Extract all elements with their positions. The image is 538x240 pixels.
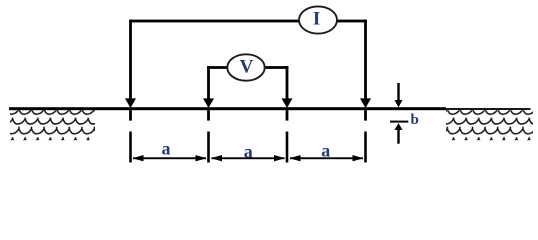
svg-text:I: I [313,9,320,30]
label a1 [162,138,171,158]
wire: current loop top left [129,20,300,23]
voltmeter V [227,54,264,80]
svg-text:a: a [162,138,171,158]
label b [411,112,419,128]
svg-text:a: a [321,141,330,161]
label a3 [321,141,330,161]
dimension a (C1-P1) [133,155,207,161]
wire: voltage loop top right [264,66,288,69]
svg-text:a: a [244,141,253,161]
ground surface line right (thin) [446,108,531,110]
extension line at C2 [364,132,367,163]
earth hatch left [10,110,95,140]
electrode P1 (second) [203,66,214,121]
extension line at P2 [286,132,289,163]
wire: current loop top right [337,20,368,23]
electrode C1 (leftmost) [125,20,136,121]
svg-text:b: b [411,112,419,128]
dimension a (P1-P2) [211,155,285,161]
extension line at P1 [207,132,210,163]
ammeter I [299,6,337,33]
dimension b (electrode depth) [390,83,408,144]
electrode P2 (third) [282,66,293,121]
svg-text:V: V [240,56,254,77]
ground surface line (thick) [9,107,446,110]
extension line at C1 [129,132,132,163]
label a2 [244,141,253,161]
dimension a (P2-C2) [290,155,364,161]
electrode C2 (rightmost) [360,20,371,121]
earth hatch right [446,110,533,140]
wire: voltage loop top left [207,66,228,69]
